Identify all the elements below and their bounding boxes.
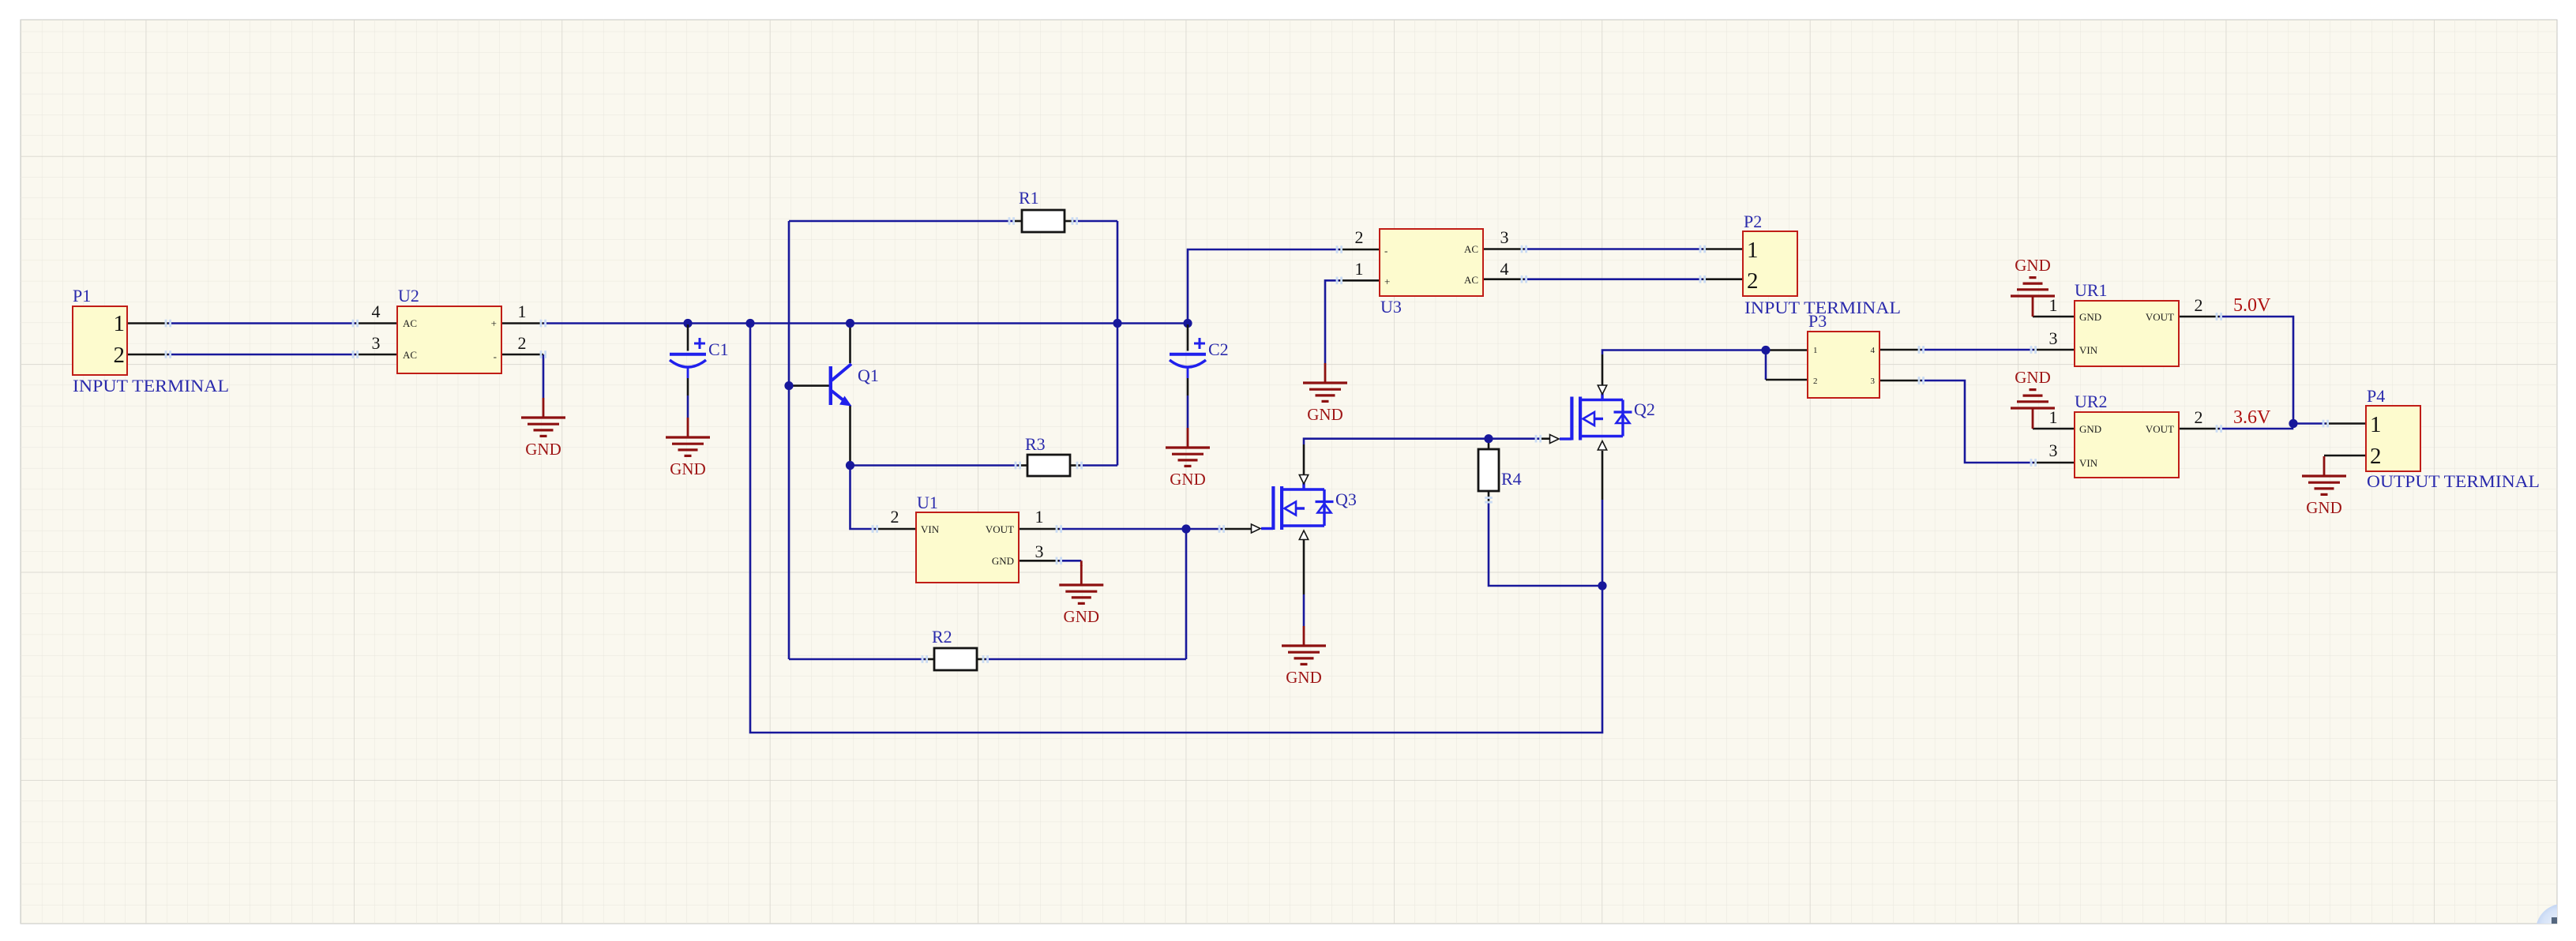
svg-text:2: 2 bbox=[2195, 295, 2203, 315]
svg-text:GND: GND bbox=[992, 555, 1014, 567]
svg-text:R2: R2 bbox=[932, 627, 952, 647]
resistor R2 bbox=[934, 648, 977, 670]
pin U2-2 bbox=[501, 354, 543, 356]
pin U1-2 VIN bbox=[875, 528, 916, 530]
node P3 input bbox=[1761, 346, 1770, 354]
svg-text:+: + bbox=[1384, 276, 1390, 287]
svg-text:3: 3 bbox=[1035, 542, 1044, 561]
node R1-R3 vertical on bus bbox=[1113, 319, 1121, 328]
svg-text:3: 3 bbox=[1871, 377, 1876, 386]
transistor Q1 bbox=[829, 364, 852, 407]
svg-text:U1: U1 bbox=[917, 493, 938, 512]
pin UR1 VOUT bbox=[2179, 316, 2219, 318]
pin Q1 base bbox=[789, 384, 829, 387]
svg-text:1: 1 bbox=[2049, 295, 2058, 315]
svg-text:P2: P2 bbox=[1744, 212, 1762, 231]
ground below Q3 bbox=[1282, 626, 1326, 687]
node Q1 base bbox=[784, 381, 793, 390]
pin Q3 drain black bbox=[1303, 444, 1305, 474]
svg-text:2: 2 bbox=[114, 343, 126, 368]
svg-text:P3: P3 bbox=[1808, 311, 1827, 331]
wire main bus U2 pin1 to C2 bbox=[543, 322, 1188, 324]
sheet corner ornament bbox=[2536, 904, 2576, 941]
pin Q3 source black bbox=[1303, 540, 1305, 594]
svg-text:2: 2 bbox=[2195, 407, 2203, 427]
wire Q3 drain to R4 to Q2 gate bbox=[1304, 439, 1539, 444]
pin R4 bottom bbox=[1488, 491, 1490, 501]
wire U1 GND short blue bbox=[1059, 560, 1081, 562]
pin U3-1 bbox=[1339, 279, 1380, 282]
wire R3 left to Q1 emitter node bbox=[851, 464, 1019, 467]
connector P4 bbox=[2366, 406, 2420, 471]
regulator U1 bbox=[916, 512, 1019, 583]
svg-text:AC: AC bbox=[403, 317, 417, 329]
svg-text:Q3: Q3 bbox=[1335, 489, 1357, 509]
svg-text:AC: AC bbox=[1464, 243, 1478, 255]
svg-text:Q2: Q2 bbox=[1634, 399, 1655, 419]
svg-text:3: 3 bbox=[372, 333, 381, 353]
svg-text:R1: R1 bbox=[1019, 188, 1039, 208]
mosfet Q3 bbox=[1252, 475, 1334, 540]
node 5.0V/3.6V join bbox=[2289, 419, 2297, 428]
wire vertical R1-Q1 base-R2 bbox=[788, 221, 790, 659]
wire R2 left bbox=[789, 658, 925, 661]
node Q1 collector on bus bbox=[846, 319, 854, 328]
node C1 on bus bbox=[683, 319, 692, 328]
pin Q1 emitter bbox=[849, 405, 851, 466]
svg-text:VIN: VIN bbox=[2079, 457, 2098, 469]
svg-text:UR2: UR2 bbox=[2075, 392, 2108, 411]
wire P1 pin1 to U2 pin4 bbox=[168, 322, 355, 324]
pin P2-2 bbox=[1703, 278, 1743, 280]
wire R4 bottom to Q2 source node bbox=[1489, 501, 1602, 586]
pin U3-4 bbox=[1483, 278, 1524, 280]
svg-text:VIN: VIN bbox=[2079, 344, 2098, 356]
regulator UR1 bbox=[2075, 301, 2179, 366]
pin P1-2 bbox=[127, 354, 168, 356]
svg-text:U3: U3 bbox=[1380, 297, 1402, 317]
svg-text:4: 4 bbox=[372, 302, 381, 321]
wire R1 right bbox=[1074, 220, 1117, 223]
wire R3 right bbox=[1080, 464, 1117, 467]
resistor R4 bbox=[1478, 449, 1499, 491]
svg-text:VOUT: VOUT bbox=[986, 523, 1014, 535]
pin P3-3 bbox=[1879, 380, 1921, 382]
ground above UR1 bbox=[2011, 256, 2055, 317]
wire U3 pin4 to P2 pin2 bbox=[1524, 278, 1703, 280]
pin P2-1 bbox=[1703, 248, 1743, 250]
svg-text:UR1: UR1 bbox=[2075, 280, 2108, 300]
transformer U3 bbox=[1380, 229, 1483, 296]
pin UR1 VIN bbox=[2033, 349, 2075, 351]
wire Q1 emitter node down to U1 VIN bbox=[851, 466, 876, 530]
wire P1 pin2 to U2 pin3 bbox=[168, 354, 355, 356]
ground below U2 bbox=[521, 398, 565, 459]
svg-text:3: 3 bbox=[2049, 328, 2058, 348]
svg-text:1: 1 bbox=[2370, 412, 2382, 437]
svg-text:C2: C2 bbox=[1208, 339, 1229, 359]
svg-text:3: 3 bbox=[2049, 441, 2058, 460]
pin P1-1 bbox=[127, 322, 168, 324]
pin U3-3 bbox=[1483, 248, 1524, 250]
wire P3 pin4 to UR1 VIN bbox=[1921, 349, 2033, 351]
connector P3 bbox=[1808, 332, 1879, 398]
wire P3 pin3 to UR2 VIN bbox=[1921, 381, 2033, 463]
capacitor C2 bbox=[1170, 324, 1206, 428]
svg-text:Q1: Q1 bbox=[858, 366, 879, 385]
svg-text:-: - bbox=[494, 351, 497, 362]
wire Q2 source down and bottom return to bus bbox=[750, 324, 1602, 733]
svg-text:2: 2 bbox=[1355, 227, 1364, 247]
svg-text:1: 1 bbox=[114, 311, 126, 336]
svg-text:C1: C1 bbox=[708, 339, 729, 359]
pin UR1 GND bbox=[2033, 316, 2075, 318]
pin P3-2 bbox=[1766, 379, 1808, 381]
svg-text:OUTPUT TERMINAL: OUTPUT TERMINAL bbox=[2367, 471, 2540, 491]
svg-text:AC: AC bbox=[1464, 274, 1478, 286]
wire U1 VOUT node down to R2 right bbox=[1185, 529, 1188, 659]
svg-text:1: 1 bbox=[518, 302, 527, 321]
wire R2 right bbox=[986, 658, 1186, 661]
svg-text:2: 2 bbox=[2370, 444, 2382, 469]
pin R2 left bbox=[925, 658, 934, 661]
pin Q2 drain black bbox=[1602, 354, 1604, 385]
svg-text:VIN: VIN bbox=[921, 523, 940, 535]
node U1 VOUT / R2 bbox=[1181, 524, 1190, 533]
svg-text:4: 4 bbox=[1871, 346, 1876, 355]
pin Q3 gate black bbox=[1222, 528, 1251, 530]
svg-text:VOUT: VOUT bbox=[2146, 311, 2174, 323]
node Q1 emitter / R3 bbox=[846, 461, 854, 470]
pin Q1 collector bbox=[849, 324, 851, 364]
ground below U3 pin1 bbox=[1303, 363, 1347, 424]
svg-text:2: 2 bbox=[518, 333, 527, 353]
wire Q3 source blue to GND bbox=[1303, 594, 1305, 626]
pin U2-1 bbox=[501, 322, 543, 324]
svg-text:1: 1 bbox=[2049, 407, 2058, 427]
svg-text:1: 1 bbox=[1747, 238, 1759, 263]
pin U3-2 bbox=[1339, 249, 1380, 251]
node return wire on bus bbox=[745, 319, 754, 328]
svg-text:2: 2 bbox=[1747, 268, 1759, 294]
pin UR2 GND bbox=[2033, 428, 2075, 430]
svg-text:AC: AC bbox=[403, 349, 417, 361]
pin UR2 VOUT bbox=[2179, 428, 2219, 430]
node R4 top bbox=[1484, 434, 1493, 443]
svg-text:4: 4 bbox=[1500, 259, 1509, 279]
wire UR1 VOUT 5.0V down to 3.6V node bbox=[2219, 317, 2293, 424]
ground below P4 pin2 bbox=[2302, 456, 2346, 517]
pin P4-1 bbox=[2326, 422, 2366, 425]
svg-text:1: 1 bbox=[1035, 507, 1044, 527]
pin Q2 gate black bbox=[1539, 437, 1549, 440]
pin R3 left bbox=[1018, 464, 1027, 467]
svg-text:3: 3 bbox=[1500, 227, 1509, 247]
pin R3 right bbox=[1070, 464, 1080, 467]
wire U3 pin1 to GND bbox=[1325, 280, 1339, 363]
pin U2-3 bbox=[355, 354, 397, 356]
wire U3 pin3 to P2 pin1 bbox=[1524, 248, 1703, 250]
mosfet Q2 bbox=[1550, 385, 1632, 450]
wire C2 node to U3 pin2 bbox=[1188, 249, 1339, 324]
node R4 bottom / Q2 source bbox=[1598, 581, 1606, 590]
resistor R3 bbox=[1027, 455, 1070, 476]
pin UR2 VIN bbox=[2033, 462, 2075, 464]
svg-text:1: 1 bbox=[1813, 346, 1818, 355]
ground above UR2 bbox=[2011, 368, 2055, 429]
svg-text:-: - bbox=[1384, 245, 1388, 257]
pin R1 right bbox=[1065, 220, 1074, 223]
svg-text:INPUT TERMINAL: INPUT TERMINAL bbox=[73, 376, 229, 396]
connector P1 bbox=[73, 306, 127, 375]
pin U2-4 bbox=[355, 322, 397, 324]
pin Q2 source black bbox=[1602, 451, 1604, 500]
wire UR2 VOUT 3.6V to P4 pin1 bbox=[2219, 424, 2326, 429]
svg-text:2: 2 bbox=[891, 507, 899, 527]
svg-text:1: 1 bbox=[1355, 259, 1364, 279]
resistor R1 bbox=[1022, 210, 1065, 232]
ground below C1 bbox=[666, 418, 710, 478]
svg-text:3.6V: 3.6V bbox=[2233, 407, 2271, 428]
node C2 on bus bbox=[1183, 319, 1192, 328]
svg-text:GND: GND bbox=[2079, 423, 2101, 435]
ground below U1 bbox=[1080, 560, 1083, 566]
svg-text:R4: R4 bbox=[1501, 469, 1522, 489]
ground below C2 bbox=[1166, 428, 1210, 489]
svg-text:+: + bbox=[491, 317, 497, 329]
svg-text:VOUT: VOUT bbox=[2146, 423, 2174, 435]
pin P3-4 bbox=[1879, 349, 1921, 351]
connector P2 bbox=[1743, 231, 1797, 296]
svg-text:5.0V: 5.0V bbox=[2233, 295, 2271, 316]
svg-text:P4: P4 bbox=[2367, 386, 2385, 406]
pin R4 top bbox=[1488, 439, 1490, 449]
svg-text:GND: GND bbox=[2079, 311, 2101, 323]
wire vertical R1 to R3 through bus bbox=[1117, 221, 1119, 466]
pin U1-1 VOUT bbox=[1019, 528, 1059, 530]
wire U2 pin2 to GND bbox=[543, 354, 545, 398]
pin P4-2 bbox=[2324, 455, 2366, 457]
svg-text:U2: U2 bbox=[398, 286, 419, 306]
regulator UR2 bbox=[2075, 412, 2179, 478]
wire Q2 drain to P3 pin1 bbox=[1602, 351, 1766, 355]
pin P3-1 bbox=[1767, 349, 1808, 351]
capacitor C1 bbox=[670, 324, 706, 418]
svg-text:2: 2 bbox=[1813, 377, 1818, 386]
wire R1 left bbox=[789, 220, 1012, 223]
transformer U2 bbox=[397, 306, 501, 373]
pin U1-3 GND bbox=[1019, 560, 1059, 562]
wire P3 pin1 node to pin2 bbox=[1765, 351, 1767, 381]
pin R1 left bbox=[1012, 220, 1022, 223]
svg-text:P1: P1 bbox=[73, 286, 91, 306]
pin R2 right bbox=[976, 658, 986, 661]
svg-text:R3: R3 bbox=[1025, 434, 1046, 454]
pin connection tick marks bbox=[165, 217, 2329, 663]
wire U1 VOUT to Q3 gate bbox=[1059, 528, 1222, 530]
